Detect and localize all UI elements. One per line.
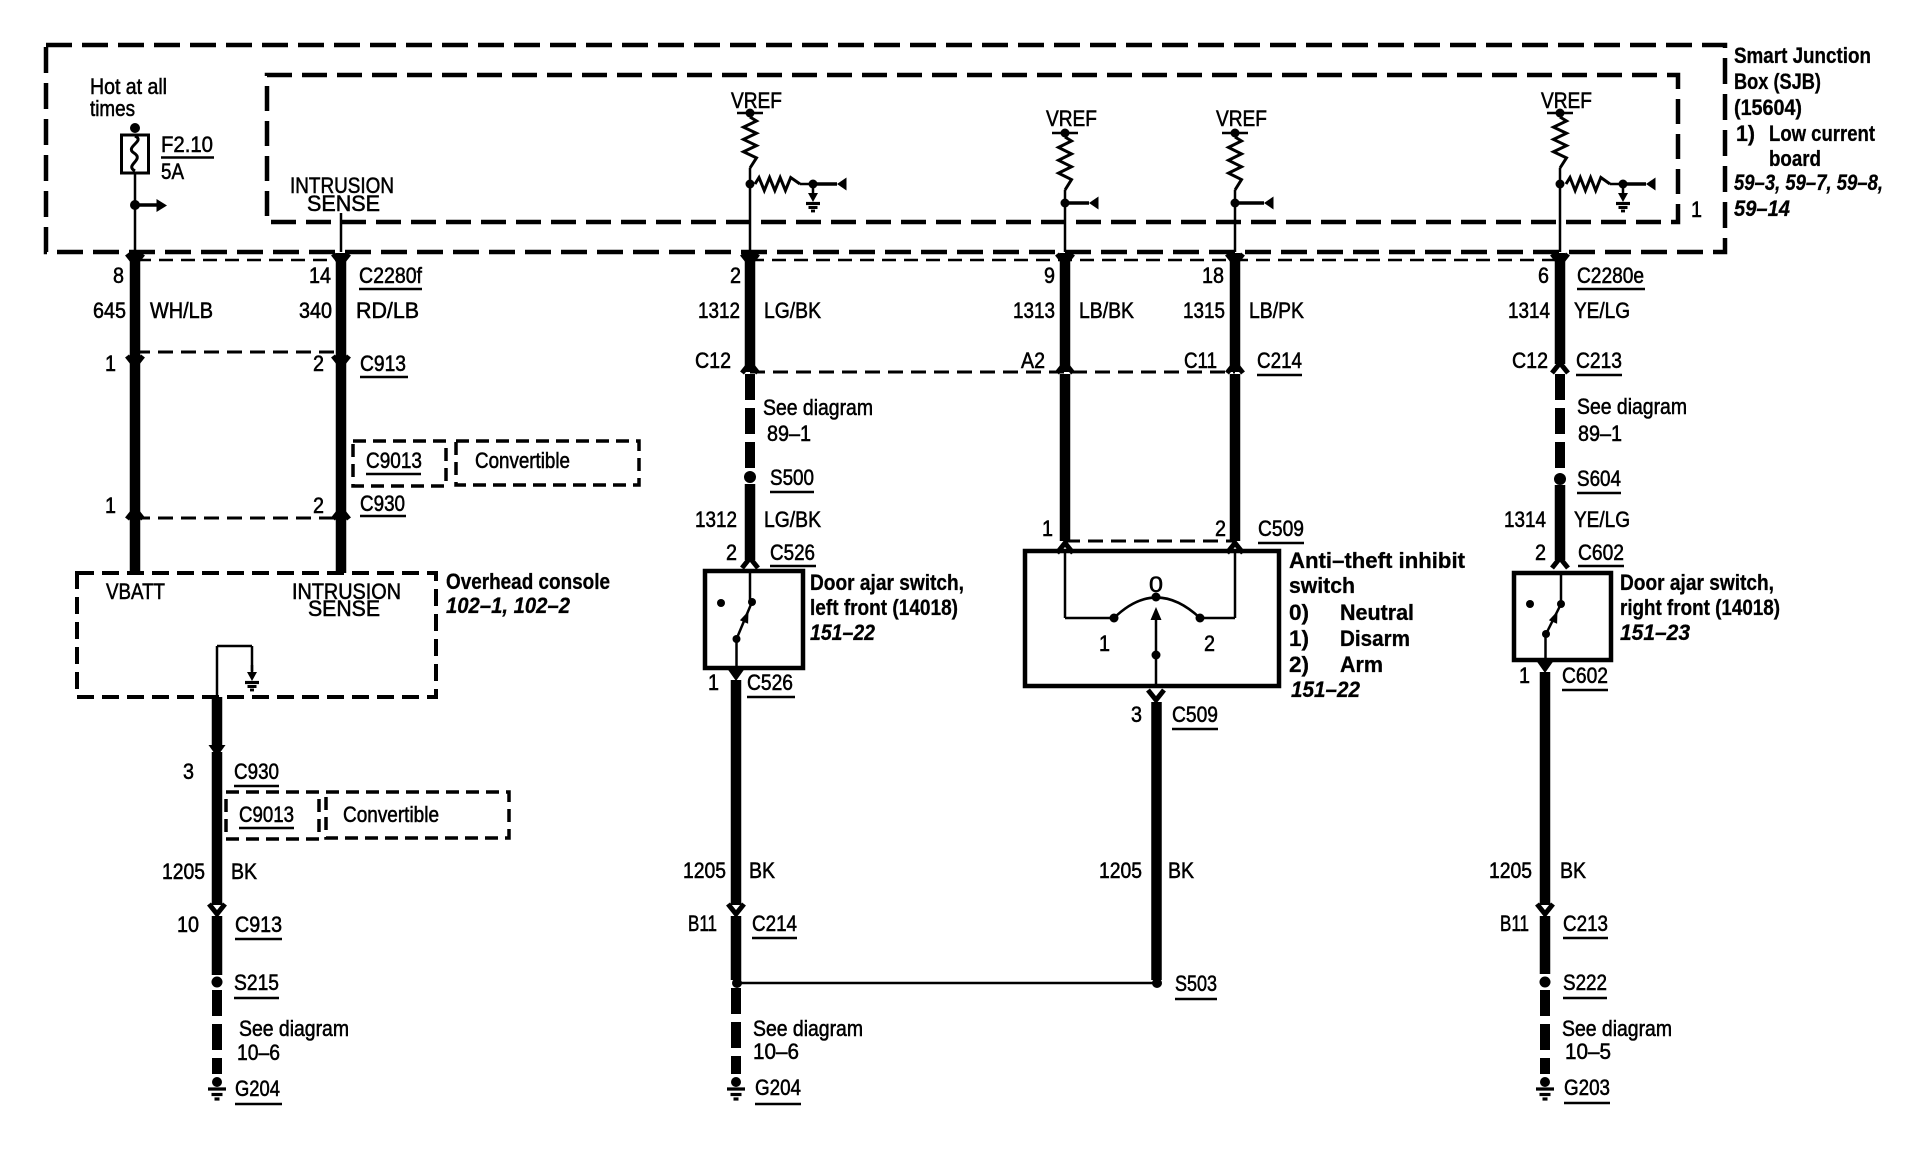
svg-text:BK: BK xyxy=(1560,858,1586,883)
svg-text:59–3, 59–7, 59–8,: 59–3, 59–7, 59–8, xyxy=(1734,170,1883,195)
svg-text:1: 1 xyxy=(1691,197,1702,222)
connector chevron C509 pin 2 xyxy=(1227,543,1243,553)
svg-text:Door ajar switch,: Door ajar switch, xyxy=(810,570,964,595)
switch right: pivot contact xyxy=(1557,600,1565,608)
connector chevron pin 8 C2280f xyxy=(127,254,143,264)
svg-text:1: 1 xyxy=(1519,663,1530,688)
wire C11 to C509 pin2 xyxy=(1230,374,1241,541)
svg-text:1205: 1205 xyxy=(683,858,726,883)
switch left: wire from pin 2 xyxy=(749,571,752,602)
svg-text:10: 10 xyxy=(177,912,199,937)
svg-text:G203: G203 xyxy=(1564,1075,1610,1100)
connector C9013 dashed box (upper) xyxy=(353,441,446,486)
connector chevron C509 pin 1 xyxy=(1057,543,1073,553)
connector chevron C11 xyxy=(1227,363,1243,373)
Convertible dashed box (upper) xyxy=(456,441,639,485)
console internal ground wire xyxy=(217,645,252,648)
svg-text:1): 1) xyxy=(1736,121,1755,146)
svg-text:Neutral: Neutral xyxy=(1340,600,1414,625)
switch right: wire from pin 2 xyxy=(1560,573,1563,604)
wire anti-theft pin3 to S503 xyxy=(1151,702,1162,980)
connector chevron 2 C526 xyxy=(742,558,758,568)
connector chevron C913 pin 2 xyxy=(333,356,349,366)
arrow door left exit xyxy=(728,669,745,681)
switch: common node xyxy=(1152,651,1161,660)
arrow console exit xyxy=(209,745,226,757)
wire intrusion sense to SJB exit xyxy=(340,213,343,252)
svg-text:C2280f: C2280f xyxy=(359,263,423,288)
svg-text:YE/LG: YE/LG xyxy=(1574,298,1630,323)
switch right: lever xyxy=(1546,604,1561,634)
svg-text:3: 3 xyxy=(183,759,194,784)
wire C213 to S604 (dashed) xyxy=(1555,374,1565,470)
connector C9013 dashed box (lower) xyxy=(226,792,319,839)
svg-text:Convertible: Convertible xyxy=(475,448,570,473)
svg-text:C509: C509 xyxy=(1258,516,1304,541)
svg-text:C2280e: C2280e xyxy=(1577,263,1644,288)
svg-text:2): 2) xyxy=(1289,652,1309,677)
svg-text:See diagram: See diagram xyxy=(763,395,873,420)
svg-text:645: 645 xyxy=(93,298,126,323)
svg-text:2: 2 xyxy=(313,493,324,518)
wire 1312 LG/BK (pin2 to C12) xyxy=(745,253,756,372)
svg-text:9: 9 xyxy=(1044,263,1055,288)
svg-text:C11: C11 xyxy=(1184,348,1217,373)
svg-text:board: board xyxy=(1769,146,1821,171)
switch right: lever arrow xyxy=(1549,611,1558,624)
svg-text:2: 2 xyxy=(726,540,737,565)
svg-text:0): 0) xyxy=(1289,600,1309,625)
node VREF1 xyxy=(746,180,755,189)
svg-text:(15604): (15604) xyxy=(1734,95,1802,120)
svg-text:C214: C214 xyxy=(1257,348,1302,373)
svg-text:151–22: 151–22 xyxy=(1291,677,1361,702)
switch left: lever xyxy=(737,602,753,639)
svg-text:C913: C913 xyxy=(235,912,282,937)
node S503 junction (left) xyxy=(732,978,742,988)
svg-text:WH/LB: WH/LB xyxy=(150,298,213,323)
svg-text:14: 14 xyxy=(309,263,331,288)
wire VREF2 node to SJB exit xyxy=(1064,203,1067,252)
SJB inner dashed box (low current board) xyxy=(267,75,1678,222)
wire C930 to overhead console (right) xyxy=(336,518,347,573)
connector chevron 3 C509 xyxy=(1148,690,1164,700)
svg-text:S503: S503 xyxy=(1175,971,1217,996)
svg-text:times: times xyxy=(90,96,135,121)
anti-theft inhibit switch box xyxy=(1025,551,1279,686)
switch: wire to pin 3 xyxy=(1155,655,1158,686)
svg-text:151–22: 151–22 xyxy=(810,620,876,645)
switch right: wire to pin 1 xyxy=(1544,634,1547,660)
wire S500 to C526 xyxy=(745,484,756,560)
wire C913 to C930 (left) xyxy=(130,352,141,518)
wire door right to B11 (1205 BK) xyxy=(1540,672,1551,905)
splice S604 xyxy=(1554,473,1566,485)
svg-text:1: 1 xyxy=(708,670,719,695)
svg-text:Box (SJB): Box (SJB) xyxy=(1734,69,1821,94)
svg-text:59–14: 59–14 xyxy=(1734,196,1790,221)
svg-text:C509: C509 xyxy=(1172,702,1218,727)
svg-text:5A: 5A xyxy=(161,159,184,184)
door ajar switch left box xyxy=(705,571,803,668)
connector line C913 xyxy=(135,351,341,354)
Convertible dashed box (lower) xyxy=(326,792,509,838)
switch: pin2 contact xyxy=(1196,614,1205,623)
resistor R1 (VREF pull-up 1) xyxy=(744,117,757,168)
splice S222 xyxy=(1540,977,1551,988)
svg-text:SENSE: SENSE xyxy=(308,596,380,621)
switch left: lever arrow xyxy=(740,611,749,624)
wire R3 to node xyxy=(1064,190,1067,203)
svg-text:C213: C213 xyxy=(1563,911,1608,936)
svg-text:S604: S604 xyxy=(1577,466,1621,491)
svg-text:1: 1 xyxy=(1099,631,1110,656)
connector line C509 xyxy=(1065,540,1235,543)
wire S215 to ground G204 (dashed) xyxy=(212,990,222,1074)
svg-text:C526: C526 xyxy=(747,670,793,695)
svg-text:VBATT: VBATT xyxy=(106,579,165,604)
svg-text:C9013: C9013 xyxy=(239,802,294,827)
svg-text:10–5: 10–5 xyxy=(1565,1039,1611,1064)
svg-text:C602: C602 xyxy=(1562,663,1608,688)
wire console exit xyxy=(212,697,223,745)
svg-text:1205: 1205 xyxy=(1099,858,1142,883)
splice S215 xyxy=(212,977,223,988)
wire R4 to node xyxy=(1234,190,1237,203)
connector chevron pin 14 C2280f xyxy=(333,254,349,264)
resistor R2 (horizontal, VREF1) xyxy=(755,178,800,191)
wire 340 RD/LB (pin14 to C913) xyxy=(336,253,347,352)
connector line C2280e xyxy=(750,259,1560,262)
svg-text:340: 340 xyxy=(299,298,332,323)
svg-text:8: 8 xyxy=(113,263,124,288)
svg-text:1314: 1314 xyxy=(1504,507,1546,532)
connector chevron B11 C213 xyxy=(1537,904,1553,914)
connector line C2280f xyxy=(137,259,341,262)
svg-text:VREF: VREF xyxy=(1541,88,1592,113)
svg-text:VREF: VREF xyxy=(731,88,782,113)
connector line C930 xyxy=(135,517,341,520)
node VREF4 xyxy=(1556,180,1565,189)
wire VREF1 node to SJB exit xyxy=(749,184,752,252)
connector chevron pin 9 C2280e xyxy=(1057,254,1073,264)
svg-text:See diagram: See diagram xyxy=(239,1016,349,1041)
wire VREF3 node to SJB exit xyxy=(1234,203,1237,252)
wire 1315 LB/PK (pin18 to C11) xyxy=(1230,253,1241,372)
svg-text:2: 2 xyxy=(730,263,741,288)
switch left: stationary contact xyxy=(717,599,725,607)
wire 645 WH/LB (pin8 to C913) xyxy=(130,253,141,352)
switch right: lower contact xyxy=(1542,630,1550,638)
switch: pin1 internal wire xyxy=(1064,551,1067,618)
svg-text:VREF: VREF xyxy=(1046,106,1097,131)
svg-text:89–1: 89–1 xyxy=(1578,421,1622,446)
switch: pin2 internal wire xyxy=(1234,551,1237,618)
connector chevron pin 6 C2280e xyxy=(1552,254,1568,264)
switch: pin1 contact xyxy=(1110,614,1119,623)
arrow to other circuit (VREF3) xyxy=(1235,201,1264,205)
svg-text:switch: switch xyxy=(1289,573,1355,598)
svg-text:B11: B11 xyxy=(1500,911,1529,936)
svg-text:G204: G204 xyxy=(755,1075,801,1100)
svg-text:VREF: VREF xyxy=(1216,106,1267,131)
svg-text:LG/BK: LG/BK xyxy=(764,298,821,323)
svg-text:2: 2 xyxy=(1535,540,1546,565)
connector chevron A2 xyxy=(1057,363,1073,373)
svg-text:B11: B11 xyxy=(688,911,717,936)
switch: rotor arc xyxy=(1114,598,1200,619)
switch left: lower contact xyxy=(733,635,741,643)
svg-text:1205: 1205 xyxy=(1489,858,1532,883)
svg-text:1312: 1312 xyxy=(695,507,737,532)
wire R1 to node xyxy=(749,168,752,184)
connector chevron C913 pin 1 xyxy=(127,356,143,366)
connector line C12/A2/C11/C214 xyxy=(750,371,1235,374)
svg-text:Smart Junction: Smart Junction xyxy=(1734,43,1871,68)
svg-text:1: 1 xyxy=(105,493,116,518)
svg-text:See diagram: See diagram xyxy=(1577,394,1687,419)
ground G203 xyxy=(1540,1077,1550,1087)
wire R2 to ground node xyxy=(800,183,813,186)
switch left: wire to pin 1 xyxy=(735,639,738,668)
arrow to other circuit (VREF4) xyxy=(1623,182,1646,186)
svg-text:S500: S500 xyxy=(770,465,814,490)
ground (console internal) xyxy=(251,665,254,674)
svg-text:S222: S222 xyxy=(1563,970,1607,995)
wire S503 tie line xyxy=(737,982,1157,985)
svg-text:C9013: C9013 xyxy=(366,448,422,473)
svg-text:1: 1 xyxy=(1042,516,1053,541)
svg-text:YE/LG: YE/LG xyxy=(1574,507,1630,532)
svg-text:Arm: Arm xyxy=(1340,652,1383,677)
wire 1313 LB/BK (pin9 to A2) xyxy=(1060,253,1071,372)
Smart Junction Box outer dashed boundary xyxy=(46,45,1725,252)
svg-text:102–1, 102–2: 102–1, 102–2 xyxy=(446,593,571,618)
ground (VREF4 internal) xyxy=(1622,186,1625,195)
switch right: stationary contact xyxy=(1526,600,1534,608)
svg-text:BK: BK xyxy=(231,859,257,884)
svg-text:LB/BK: LB/BK xyxy=(1079,298,1134,323)
svg-text:LG/BK: LG/BK xyxy=(764,507,821,532)
svg-text:G204: G204 xyxy=(235,1076,280,1101)
wire VREF4 node to SJB exit xyxy=(1559,184,1562,252)
node VREF2 xyxy=(1061,199,1070,208)
svg-text:10–6: 10–6 xyxy=(753,1039,799,1064)
svg-text:C12: C12 xyxy=(1512,348,1548,373)
svg-text:S215: S215 xyxy=(234,970,279,995)
switch left: pivot contact xyxy=(748,598,756,606)
connector chevron pin 18 C2280e xyxy=(1227,254,1243,264)
svg-text:1: 1 xyxy=(105,351,116,376)
resistor R6 (horizontal, VREF4) xyxy=(1566,178,1610,191)
svg-text:BK: BK xyxy=(749,858,775,883)
svg-text:C913: C913 xyxy=(360,351,406,376)
connector chevron C12 (left column) xyxy=(742,363,758,373)
connector chevron C12/C213 (right) xyxy=(1552,363,1568,373)
svg-text:10–6: 10–6 xyxy=(237,1040,280,1065)
fuse F2.10 5A xyxy=(130,123,140,133)
svg-text:See diagram: See diagram xyxy=(753,1016,863,1041)
resistor R5 (VREF pull-up 4) xyxy=(1554,117,1567,168)
wire R6 to ground node xyxy=(1610,183,1623,186)
wire C913 to splice S215 xyxy=(212,916,223,975)
wire C12 to S500 (dashed) xyxy=(745,374,755,468)
svg-text:1205: 1205 xyxy=(162,859,205,884)
svg-text:1): 1) xyxy=(1289,626,1309,651)
wire door left to B11 (1205 BK) xyxy=(731,680,742,905)
wire S222 to ground G203 (dashed) xyxy=(1540,990,1550,1074)
wire C913 to C930 (right) xyxy=(336,352,347,518)
svg-text:F2.10: F2.10 xyxy=(161,132,213,157)
svg-text:Disarm: Disarm xyxy=(1340,626,1410,651)
wire to C930 connector xyxy=(212,752,223,905)
wire 1314 YE/LG (pin6 to C213) xyxy=(1555,253,1566,364)
svg-text:Overhead console: Overhead console xyxy=(446,569,610,594)
splice S500 xyxy=(744,471,756,483)
overhead console dashed box xyxy=(77,573,436,697)
svg-text:C526: C526 xyxy=(770,540,815,565)
wire R5 to node xyxy=(1559,168,1562,184)
svg-text:LB/PK: LB/PK xyxy=(1249,298,1304,323)
connector chevron C930 pin 2 xyxy=(333,509,349,519)
resistor R4 (VREF pull-up 3) xyxy=(1229,137,1242,190)
connector chevron pin 2 C2280e xyxy=(742,254,758,264)
connector chevron C930 pin 1 xyxy=(127,509,143,519)
svg-text:Low current: Low current xyxy=(1769,121,1876,146)
svg-text:C12: C12 xyxy=(695,348,731,373)
svg-text:89–1: 89–1 xyxy=(767,421,811,446)
arrow to other circuit (VREF1) xyxy=(813,182,837,186)
wire A2 to C509 pin1 xyxy=(1060,374,1071,541)
arrow door right exit xyxy=(1537,661,1554,673)
wire B11 to splice S222 xyxy=(1540,916,1551,974)
node under fuse with branch arrow xyxy=(130,200,140,210)
svg-text:right front (14018): right front (14018) xyxy=(1620,595,1780,620)
connector chevron B11 C214 xyxy=(728,904,744,914)
svg-text:6: 6 xyxy=(1538,263,1549,288)
svg-text:C602: C602 xyxy=(1578,540,1624,565)
resistor R3 (VREF pull-up 2) xyxy=(1059,137,1072,190)
node VREF3 xyxy=(1231,199,1240,208)
svg-text:C214: C214 xyxy=(752,911,797,936)
svg-text:1313: 1313 xyxy=(1013,298,1055,323)
svg-text:See diagram: See diagram xyxy=(1562,1016,1672,1041)
ground (VREF1 internal) xyxy=(812,186,815,195)
node S503 junction (right) xyxy=(1152,978,1162,988)
svg-text:1315: 1315 xyxy=(1183,298,1225,323)
svg-text:2: 2 xyxy=(1215,516,1226,541)
wire fuse to SJB exit xyxy=(134,173,137,252)
wire junction to ground G204 (dashed) xyxy=(731,988,741,1074)
svg-text:1312: 1312 xyxy=(698,298,740,323)
svg-text:2: 2 xyxy=(313,351,324,376)
door ajar switch right box xyxy=(1514,573,1611,660)
connector chevron 2 C602 xyxy=(1552,558,1568,568)
svg-text:SENSE: SENSE xyxy=(307,191,380,216)
svg-text:C213: C213 xyxy=(1576,348,1622,373)
svg-text:C930: C930 xyxy=(234,759,279,784)
wire B11 to splice junction xyxy=(731,916,742,980)
wire C930 to overhead console (left) xyxy=(130,518,141,573)
svg-text:RD/LB: RD/LB xyxy=(356,298,419,323)
svg-text:1314: 1314 xyxy=(1508,298,1550,323)
svg-text:18: 18 xyxy=(1202,263,1224,288)
ground G204 (left) xyxy=(212,1077,222,1087)
svg-text:3: 3 xyxy=(1131,702,1142,727)
console internal wire to exit xyxy=(216,646,219,697)
svg-text:151–23: 151–23 xyxy=(1620,620,1690,645)
svg-text:C930: C930 xyxy=(360,491,405,516)
svg-text:Door ajar switch,: Door ajar switch, xyxy=(1620,570,1774,595)
svg-text:2: 2 xyxy=(1204,631,1215,656)
svg-text:BK: BK xyxy=(1168,858,1194,883)
wire S604 to C602 xyxy=(1555,485,1566,560)
switch: wiper arrow xyxy=(1155,618,1158,655)
svg-text:Anti–theft inhibit: Anti–theft inhibit xyxy=(1289,548,1466,573)
svg-text:A2: A2 xyxy=(1021,348,1045,373)
svg-text:left front (14018): left front (14018) xyxy=(810,595,958,620)
svg-text:Convertible: Convertible xyxy=(343,802,439,827)
arrow to other circuit (VREF2) xyxy=(1065,201,1089,205)
connector chevron 10 C913 xyxy=(209,904,225,914)
ground G204 (middle) xyxy=(731,1077,741,1087)
switch: common contact xyxy=(1152,593,1161,602)
